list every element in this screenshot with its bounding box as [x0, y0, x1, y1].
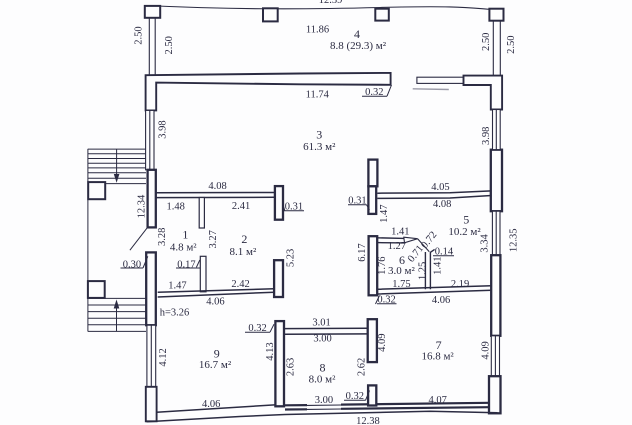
- stairs square landing 1: [88, 182, 105, 199]
- svg-text:3.00: 3.00: [315, 395, 333, 406]
- stairs left boundary: [87, 149, 89, 332]
- svg-text:8.1 м²: 8.1 м²: [230, 246, 257, 258]
- svg-text:1.25: 1.25: [418, 262, 429, 280]
- right wall window 3: [491, 336, 499, 376]
- pier P1 (right end of rooms 1-2 top wall): [275, 186, 283, 220]
- svg-text:5: 5: [463, 212, 469, 226]
- stairs square landing 2: [88, 281, 105, 298]
- svg-text:2.62: 2.62: [356, 358, 367, 376]
- svg-text:3.27: 3.27: [208, 230, 219, 248]
- svg-text:4.09: 4.09: [377, 334, 388, 352]
- svg-text:0.31: 0.31: [285, 201, 303, 212]
- divider rooms 1/2 upper stub: [199, 198, 204, 229]
- svg-text:11.74: 11.74: [306, 89, 330, 100]
- svg-text:4.13: 4.13: [265, 342, 276, 360]
- svg-text:3.01: 3.01: [312, 317, 330, 328]
- leader line for 0.30: [130, 228, 148, 251]
- svg-text:3: 3: [316, 128, 322, 142]
- svg-text:4.07: 4.07: [429, 395, 447, 406]
- svg-text:2.50: 2.50: [506, 36, 517, 54]
- svg-text:4.12: 4.12: [158, 348, 169, 366]
- svg-text:10.2 м²: 10.2 м²: [448, 226, 481, 238]
- rooms 1-2 bottom wall: [158, 289, 274, 297]
- svg-text:2.19: 2.19: [451, 279, 469, 290]
- right wall block 2: [491, 255, 500, 336]
- svg-text:1.41: 1.41: [433, 257, 444, 275]
- room 6 right wall: [425, 249, 434, 289]
- room 6 left pier P4: [369, 236, 378, 295]
- svg-text:4.06: 4.06: [206, 296, 224, 307]
- svg-text:8.0 м²: 8.0 м²: [309, 374, 336, 386]
- top wall (room 3 north): [146, 73, 391, 111]
- dim underline 0.17: [176, 260, 200, 268]
- dim underline 0.30: [121, 256, 148, 268]
- svg-text:12.35: 12.35: [508, 228, 519, 252]
- svg-text:3.00: 3.00: [313, 334, 331, 345]
- divider rooms 1/2 lower part: [200, 256, 206, 292]
- left wall pier lower: [146, 252, 156, 325]
- dim underline 0.14: [433, 255, 454, 257]
- svg-text:8.8 (29.3) м²: 8.8 (29.3) м²: [330, 40, 387, 52]
- top wall door swing line: [413, 88, 449, 91]
- svg-text:0.30: 0.30: [123, 259, 141, 270]
- svg-text:0.32: 0.32: [365, 87, 383, 98]
- right wall block 1: [491, 150, 502, 212]
- svg-text:4.05: 4.05: [431, 182, 449, 193]
- svg-text:4.8 м²: 4.8 м²: [170, 242, 197, 254]
- svg-text:1.47: 1.47: [379, 205, 390, 223]
- bottom wall outer line: [147, 411, 498, 422]
- svg-text:16.7 м²: 16.7 м²: [199, 359, 232, 371]
- right wall bottom corner block: [489, 376, 501, 413]
- room 6 top wall: [377, 238, 405, 243]
- room 8 top wall: [284, 328, 368, 334]
- svg-text:11.86: 11.86: [306, 24, 329, 35]
- svg-text:2.42: 2.42: [231, 279, 249, 290]
- terrace edge line: [146, 6, 492, 10]
- svg-text:1.27: 1.27: [388, 241, 406, 252]
- dim underline 0.32 top: [362, 85, 392, 96]
- svg-text:1.48: 1.48: [167, 201, 185, 212]
- svg-text:4.06: 4.06: [432, 295, 450, 306]
- stairs upper direction arrow (down): [116, 149, 118, 175]
- terrace post 4: [489, 9, 503, 21]
- svg-text:0.32: 0.32: [377, 295, 395, 306]
- svg-text:4.08: 4.08: [433, 199, 451, 210]
- svg-text:9: 9: [214, 346, 220, 360]
- terrace railing right double line: [493, 21, 500, 76]
- room 6 door leaf wedge: [404, 237, 418, 243]
- svg-text:1: 1: [182, 228, 188, 242]
- svg-text:12.38: 12.38: [356, 416, 380, 425]
- dim underline 0.32 bottom: [344, 391, 370, 401]
- pier P2 upper: [368, 160, 377, 187]
- svg-text:0.14: 0.14: [435, 247, 454, 258]
- svg-text:1.47: 1.47: [168, 281, 186, 292]
- svg-text:2.50: 2.50: [134, 26, 145, 44]
- pier P2 lower: [368, 186, 376, 214]
- svg-text:1.76: 1.76: [377, 257, 388, 275]
- bottom wall solid band east: [285, 405, 307, 409]
- svg-text:2.50: 2.50: [164, 36, 175, 54]
- svg-text:61.3 м²: 61.3 м²: [303, 141, 336, 153]
- svg-text:h=3.26: h=3.26: [160, 308, 190, 319]
- terrace post 2: [263, 8, 278, 21]
- room 6 door swing: [418, 239, 430, 252]
- left wall bottom corner block: [146, 387, 157, 422]
- right wall window 2: [492, 211, 500, 255]
- svg-text:0.17: 0.17: [177, 259, 195, 270]
- svg-text:1.41: 1.41: [391, 227, 409, 238]
- bottom wall door threshold: [307, 405, 341, 409]
- svg-text:2.50: 2.50: [481, 33, 492, 51]
- svg-text:4.09: 4.09: [481, 341, 492, 359]
- svg-text:12.39: 12.39: [319, 0, 343, 6]
- svg-text:3.98: 3.98: [481, 127, 492, 145]
- right wall window 1: [493, 110, 501, 150]
- svg-text:1.75: 1.75: [392, 279, 410, 290]
- svg-text:6.17: 6.17: [357, 243, 368, 261]
- terrace railing left double line: [149, 18, 155, 76]
- svg-text:2.41: 2.41: [232, 201, 250, 212]
- bottom wall inner line west: [157, 404, 285, 412]
- room 5 top wall: [377, 191, 491, 199]
- svg-text:8: 8: [320, 360, 326, 374]
- svg-text:16.8 м²: 16.8 м²: [421, 351, 454, 363]
- wall stub P6 (rooms 7/8 bottom): [368, 385, 376, 405]
- rooms 1-2 top wall: [156, 193, 275, 198]
- svg-text:2.63: 2.63: [286, 358, 297, 376]
- svg-text:0.31: 0.31: [348, 195, 366, 206]
- terrace post 3: [375, 9, 389, 21]
- left wall window 1: [146, 110, 154, 169]
- svg-text:3.34: 3.34: [480, 233, 491, 252]
- left wall pier upper: [148, 170, 156, 228]
- top wall east block: [464, 76, 503, 110]
- svg-text:0.32: 0.32: [248, 323, 266, 334]
- svg-text:3.28: 3.28: [157, 228, 168, 246]
- dim underline 0.31 right: [348, 205, 370, 210]
- svg-text:12.34: 12.34: [137, 194, 148, 218]
- stairs lower direction arrow (up): [116, 308, 118, 331]
- svg-text:4: 4: [354, 27, 360, 41]
- dim underline 0.32 room8 left: [245, 324, 274, 332]
- svg-text:0.32: 0.32: [346, 391, 364, 402]
- svg-text:2: 2: [241, 232, 247, 246]
- stairs lower flight treads: [88, 298, 146, 331]
- svg-text:3.0 м²: 3.0 м²: [388, 265, 415, 277]
- left wall window 2: [147, 325, 156, 387]
- svg-text:4.06: 4.06: [202, 399, 220, 410]
- rooms 5-6 bottom wall: [377, 286, 491, 294]
- dim underline 0.31 left: [283, 205, 304, 211]
- room 8 right wall bar P5: [368, 319, 377, 362]
- svg-text:5.23: 5.23: [286, 249, 297, 267]
- svg-text:3.98: 3.98: [157, 120, 168, 138]
- stairs upper flight treads: [88, 149, 146, 184]
- svg-text:4.08: 4.08: [208, 181, 226, 192]
- dim underline 0.32 below pier4: [376, 296, 397, 305]
- terrace post 1: [145, 6, 160, 18]
- rooms 8/9 divider bar P7: [275, 321, 284, 406]
- top wall door leaf: [417, 77, 465, 83]
- pier P3: [274, 260, 283, 297]
